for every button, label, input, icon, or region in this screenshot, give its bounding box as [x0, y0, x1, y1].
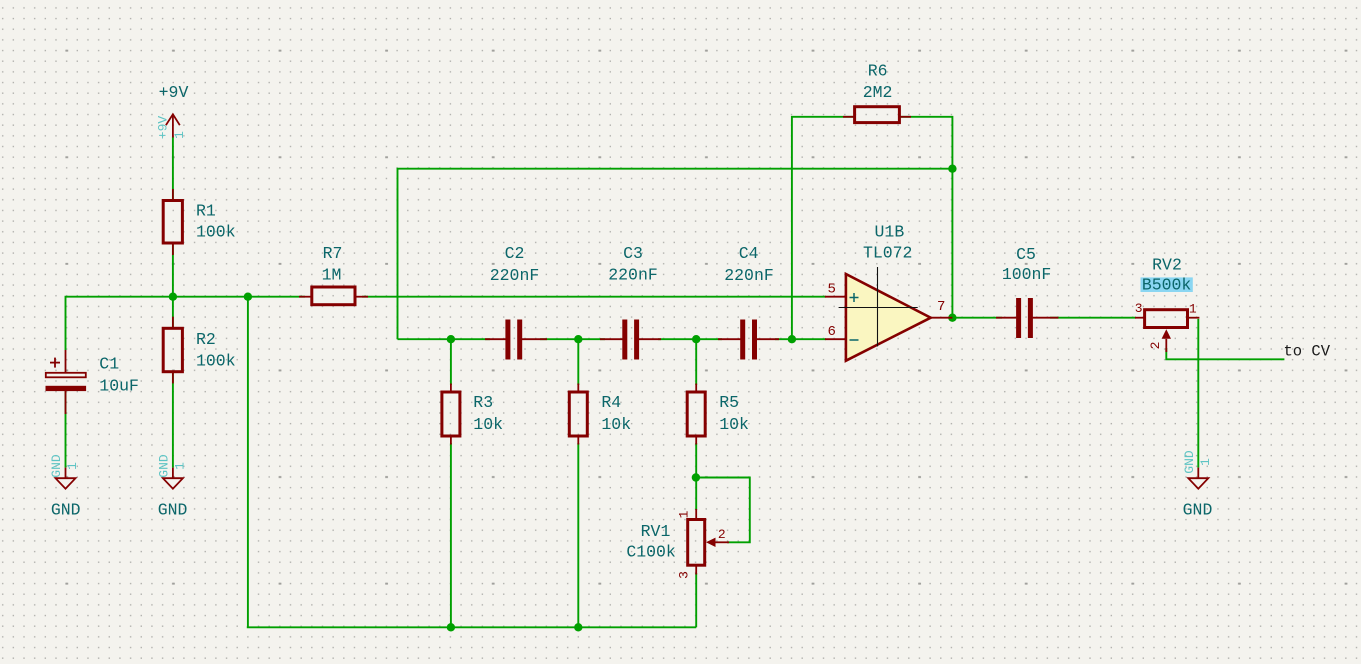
wire R1 top from +9V: [172, 137, 174, 201]
junction R1/R2 node: [169, 293, 177, 301]
svg-text:1: 1: [677, 510, 692, 518]
junction feedback tap: [948, 165, 956, 173]
capacitor C3: [600, 320, 661, 360]
wire R6 left vertical: [792, 117, 855, 339]
value 220nF of C4: [724, 266, 774, 285]
pin number 2 of RV2: [1148, 341, 1163, 349]
value 10uF of C1: [99, 376, 139, 395]
wire RV2 wiper to label: [1166, 348, 1284, 359]
wire RV2 pin1 down to GND: [1197, 319, 1199, 468]
svg-text:C3: C3: [623, 244, 643, 263]
label C2: [505, 244, 525, 263]
svg-text:1: 1: [172, 131, 187, 139]
svg-text:RV2: RV2: [1152, 255, 1182, 274]
svg-text:1: 1: [65, 462, 80, 470]
resistor R5: [687, 384, 705, 445]
junction R5/RV1 node: [692, 473, 700, 481]
resistor R2: [163, 317, 182, 384]
wire R4 column: [577, 339, 579, 385]
pin number 1 GND mid: [172, 462, 187, 470]
net label to CV: [1284, 343, 1331, 361]
svg-text:GND: GND: [49, 454, 64, 478]
wire R2 bottom to GND: [172, 372, 174, 468]
wire ladder node C3-C4: [658, 338, 722, 340]
value 100k of R1: [196, 223, 236, 242]
value 10k of R3: [473, 415, 503, 434]
label R6: [868, 62, 888, 81]
svg-text:1: 1: [172, 462, 187, 470]
svg-text:3: 3: [677, 571, 692, 579]
label RV2: [1152, 255, 1182, 274]
svg-text:R6: R6: [868, 62, 888, 81]
svg-text:220nF: 220nF: [490, 266, 540, 285]
wire R3 bottom to bus: [450, 443, 452, 627]
svg-text:U1B: U1B: [875, 222, 905, 241]
value 100nF of C5: [1002, 265, 1052, 284]
wire R3 column: [450, 339, 452, 385]
label C4: [739, 244, 759, 263]
pin number 7 of U1B: [937, 299, 945, 315]
junction C2/R3 node: [447, 335, 455, 343]
svg-text:2M2: 2M2: [863, 83, 893, 102]
svg-text:C1: C1: [99, 355, 119, 374]
power symbol +9V: [166, 114, 180, 137]
junction R7 input node: [244, 293, 252, 301]
junction R4 bottom bus: [574, 623, 582, 631]
svg-text:R4: R4: [601, 393, 621, 412]
value 10k of R4: [601, 415, 631, 434]
svg-text:+9V: +9V: [156, 116, 171, 140]
svg-text:GND: GND: [156, 454, 171, 478]
svg-text:TL072: TL072: [863, 244, 913, 263]
label RV1: [641, 522, 671, 541]
svg-text:100nF: 100nF: [1002, 265, 1052, 284]
resistor R1: [163, 189, 182, 255]
value TL072 of U1B: [863, 244, 913, 263]
pin number 3 of RV1: [677, 571, 692, 579]
wire C1 bottom to GND: [65, 391, 67, 468]
value C100k of RV1: [626, 542, 676, 561]
potentiometer RV1: [688, 509, 729, 575]
capacitor C1: [46, 350, 87, 414]
label R4: [601, 393, 621, 412]
svg-text:1: 1: [1198, 458, 1213, 466]
svg-text:10k: 10k: [719, 415, 749, 434]
wire C5 to RV2: [1050, 317, 1136, 319]
wire main horizontal input net: [66, 297, 306, 350]
junction C3/R4 node: [574, 335, 582, 343]
junction op-amp output node: [948, 314, 956, 322]
svg-text:10k: 10k: [473, 415, 503, 434]
svg-text:B500k: B500k: [1142, 275, 1192, 294]
label C1: [99, 355, 119, 374]
svg-text:1: 1: [1189, 301, 1197, 316]
svg-text:2: 2: [1148, 341, 1163, 349]
svg-text:10k: 10k: [601, 415, 631, 434]
wire R6 right to output: [899, 117, 952, 318]
net label +9V: [159, 83, 189, 102]
pin number 1 of RV1: [677, 510, 692, 518]
net label GND right: [1183, 501, 1213, 520]
wire vertical bus left down from R7 input node: [247, 297, 249, 628]
pin number 5 of U1B: [827, 281, 835, 297]
wire output to C5 and RV2: [952, 317, 1002, 319]
wire R4 bottom to bus: [577, 443, 579, 627]
label R3: [473, 393, 493, 412]
label R2: [196, 330, 216, 349]
svg-text:R7: R7: [323, 244, 343, 263]
potentiometer RV2: [1135, 310, 1199, 352]
pin name GND hidden left: [49, 454, 64, 478]
net label GND mid: [158, 501, 188, 520]
junction R3 bottom bus: [447, 623, 455, 631]
ground symbol GND left: [56, 468, 76, 489]
wire RC ladder horizontal: [398, 338, 491, 340]
svg-text:R2: R2: [196, 330, 216, 349]
svg-text:1M: 1M: [322, 265, 342, 284]
value 100k of R2: [196, 351, 236, 370]
resistor R6: [843, 107, 911, 123]
wire RV1 wiper loop: [696, 478, 750, 543]
value 2M2 of R6: [863, 83, 893, 102]
pin name GND hidden mid: [156, 454, 171, 478]
capacitor C4: [718, 320, 779, 360]
svg-text:10uF: 10uF: [99, 376, 139, 395]
wire bottom bus: [247, 626, 696, 628]
svg-text:C4: C4: [739, 244, 759, 263]
anchor crosshair U1B: [839, 267, 918, 346]
svg-text:100k: 100k: [196, 351, 236, 370]
ground symbol GND right: [1188, 468, 1208, 489]
pin name GND hidden right: [1182, 450, 1197, 474]
wire RV1 pin3 to bus: [695, 573, 697, 627]
svg-text:R1: R1: [196, 202, 216, 221]
svg-text:7: 7: [937, 299, 945, 315]
svg-text:GND: GND: [1183, 501, 1213, 520]
wire R1 bottom to node: [172, 244, 174, 297]
svg-text:5: 5: [827, 281, 835, 297]
wire ladder node C4 to op-amp: [775, 338, 826, 340]
svg-text:R3: R3: [473, 393, 493, 412]
svg-text:220nF: 220nF: [724, 266, 774, 285]
ground symbol GND mid: [163, 468, 183, 489]
value 220nF of C3: [608, 265, 658, 284]
junction op-amp minus node: [788, 335, 796, 343]
wire R2 top: [172, 297, 174, 328]
label R5: [719, 393, 739, 412]
svg-text:6: 6: [827, 324, 835, 340]
svg-text:100k: 100k: [196, 223, 236, 242]
value 220nF of C2: [490, 266, 540, 285]
label R1: [196, 202, 216, 221]
svg-text:C100k: C100k: [626, 542, 676, 561]
svg-text:3: 3: [1135, 301, 1143, 316]
capacitor C2: [485, 320, 547, 360]
pin number 1 GND right: [1198, 458, 1213, 466]
junction C4/R5 node: [692, 335, 700, 343]
label C5: [1016, 245, 1036, 264]
value 1M of R7: [322, 265, 342, 284]
svg-text:220nF: 220nF: [608, 265, 658, 284]
op-amp U1B: [825, 274, 953, 361]
svg-text:GND: GND: [1182, 450, 1197, 474]
label C3: [623, 244, 643, 263]
resistor R4: [569, 384, 587, 445]
pin number 1 GND left: [65, 462, 80, 470]
svg-text:GND: GND: [158, 501, 188, 520]
pin number 3 of RV2: [1135, 301, 1143, 316]
wire R5 column to RV1: [695, 339, 697, 385]
svg-text:C2: C2: [505, 244, 525, 263]
capacitor C5: [996, 298, 1058, 338]
svg-text:C5: C5: [1016, 245, 1036, 264]
wire feedback top loop: [398, 169, 953, 340]
label U1B: [875, 222, 905, 241]
resistor R7: [299, 287, 368, 305]
value B500k of RV2: [1142, 275, 1192, 294]
resistor R3: [442, 384, 460, 445]
pin number 2 of RV1: [718, 527, 726, 542]
wire input net right of R7: [362, 296, 826, 298]
pin name +9V hidden: [156, 116, 171, 140]
net label GND left: [51, 501, 81, 520]
svg-text:GND: GND: [51, 501, 81, 520]
pin number 1 of +9V: [172, 131, 187, 139]
highlight B500k: [1141, 277, 1193, 292]
wire ladder node C2-C3: [540, 338, 605, 340]
wire R5 bottom to RV1: [695, 443, 697, 510]
value 10k of R5: [719, 415, 749, 434]
svg-text:RV1: RV1: [641, 522, 671, 541]
svg-text:to CV: to CV: [1284, 343, 1331, 361]
label R7: [323, 244, 343, 263]
pin number 6 of U1B: [827, 324, 835, 340]
pin number 1 of RV2: [1189, 301, 1197, 316]
svg-text:+9V: +9V: [159, 83, 189, 102]
svg-text:R5: R5: [719, 393, 739, 412]
svg-text:2: 2: [718, 527, 726, 542]
